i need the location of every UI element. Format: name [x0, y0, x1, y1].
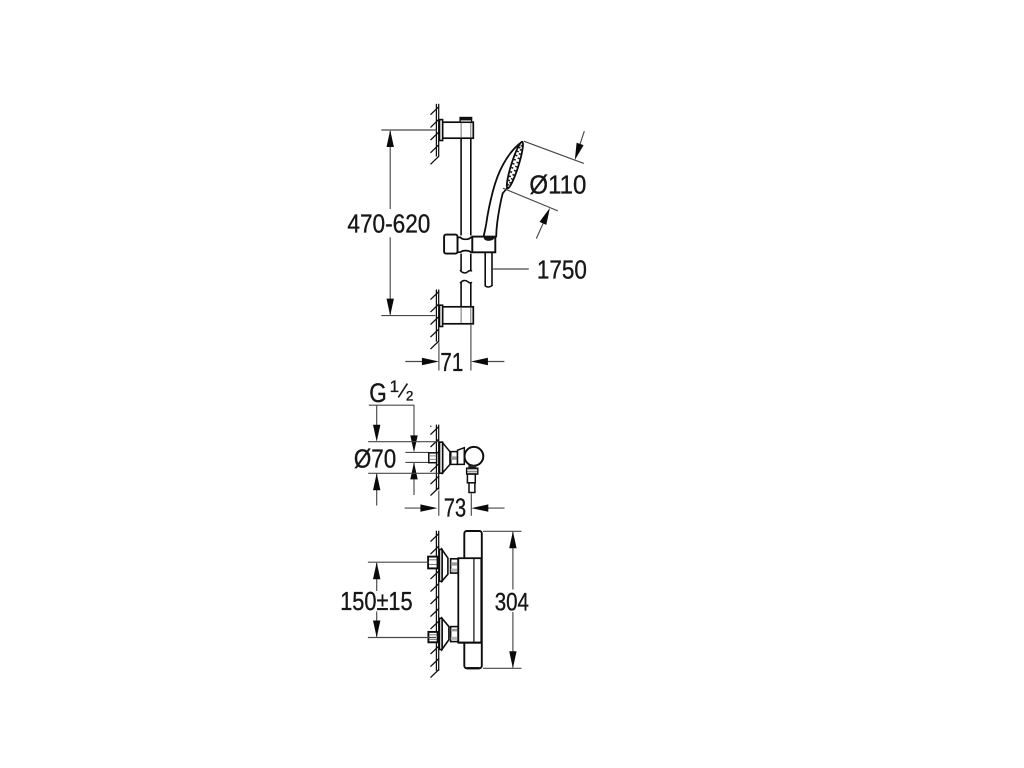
dimension 73 [438, 491, 440, 516]
svg-text:1: 1 [390, 377, 399, 396]
wall segment top rail mount [435, 104, 437, 157]
mixer threaded tail through wall [429, 453, 437, 463]
hose nipple [468, 466, 476, 469]
mixer escutcheon cone [443, 443, 450, 473]
top mount flange [440, 120, 443, 141]
svg-text:150±15: 150±15 [340, 586, 412, 616]
outlet adapter [467, 474, 475, 483]
G1/2 pipe nipple lines [405, 451, 429, 453]
top escutcheon cone [442, 550, 448, 582]
svg-text:2: 2 [406, 389, 414, 404]
shower hose [484, 253, 486, 287]
dimension 304 [483, 530, 522, 532]
top wall bracket [443, 122, 474, 138]
shower head face ring [504, 141, 526, 190]
dimension 150 plus-minus 15 [368, 561, 429, 563]
head to handle joint [503, 188, 508, 194]
wall segment thermostat [435, 531, 437, 671]
lower wall bracket [443, 307, 474, 324]
top wall nut [428, 557, 437, 569]
diameter 70 extension lines [368, 441, 440, 443]
svg-text:G: G [369, 378, 387, 408]
thermostat bottom union ring [451, 627, 459, 642]
shower holder slider [458, 237, 473, 252]
svg-text:73: 73 [444, 495, 466, 523]
speck above mixer wall [430, 426, 432, 428]
dimension 71 [438, 343, 440, 371]
svg-text:Ø70: Ø70 [354, 444, 396, 474]
mixer connection nut [451, 452, 458, 465]
dimension diameter 110 [524, 141, 584, 163]
G1/2 dimension arrows [376, 405, 378, 428]
wall segment lower rail mount [435, 290, 437, 342]
svg-text:1750: 1750 [537, 257, 587, 285]
mixer body [458, 448, 465, 465]
mixer control knob [465, 447, 484, 466]
rail segment below holder with break [460, 254, 462, 271]
top escutcheon flange [439, 549, 442, 581]
svg-text:Ø110: Ø110 [529, 169, 586, 199]
dimension 470-620 [381, 129, 436, 131]
shower rail [460, 122, 462, 235]
rail lower segment after break [460, 282, 462, 324]
svg-text:470-620: 470-620 [347, 208, 430, 238]
mixer escutcheon flange [440, 442, 443, 473]
holder knob [444, 235, 457, 254]
bottom escutcheon flange [439, 618, 442, 649]
hand shower handle [484, 142, 523, 237]
hose length label 1750 [492, 268, 529, 270]
lower mount flange [440, 305, 443, 326]
svg-text:304: 304 [495, 589, 529, 617]
wall segment shower mixer [435, 425, 437, 490]
bottom wall nut [428, 632, 437, 642]
knurled coupling nut [467, 468, 478, 474]
thermostat mounting plate [458, 558, 481, 643]
svg-text:71: 71 [440, 349, 463, 377]
rail end cap [460, 118, 472, 123]
handle socket shadow [484, 237, 495, 241]
bottom escutcheon cone [442, 618, 449, 649]
thermostat top union ring [451, 559, 459, 573]
thermostat body bar [464, 531, 482, 668]
